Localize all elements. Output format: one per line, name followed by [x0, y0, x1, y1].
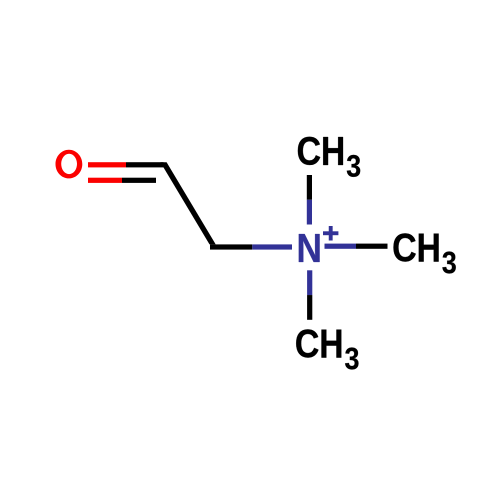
double bond O=C line 2 black half	[122, 178, 156, 183]
bond N-CH3 top black half	[307, 175, 312, 200]
bond N-CH3 bottom blue half	[307, 270, 312, 295]
methyl CH3 bottom subscript 3	[345, 348, 358, 370]
methyl CH3 right subscript 3	[442, 252, 455, 274]
double bond O=C line 1 black half	[126, 162, 164, 167]
bond N-CH3 bottom black half	[307, 295, 312, 320]
methyl CH3 top C	[298, 137, 320, 165]
bond C1-C2 diagonal wire	[160, 162, 215, 244]
double bond O=C line 1 red half	[88, 162, 126, 167]
atom N (blue nitrogen label)	[299, 234, 320, 262]
bond C2-N blue half	[252, 244, 292, 249]
methyl CH3 top subscript 3	[347, 155, 360, 177]
N+ charge plus sign vertical bar	[329, 226, 333, 241]
atom O (red oxygen label)	[56, 150, 83, 179]
methyl CH3 bottom C	[296, 329, 318, 357]
methyl CH3 right C	[393, 233, 415, 261]
bond N-CH3 right blue half	[325, 244, 357, 249]
methyl CH3 top H	[323, 137, 343, 165]
methyl CH3 right H	[419, 234, 439, 262]
bond N-CH3 top blue half	[307, 200, 312, 225]
N+ charge plus sign horizontal bar	[323, 231, 338, 235]
bond N-CH3 right black half	[356, 244, 388, 249]
methyl CH3 bottom H	[321, 330, 341, 358]
double bond O=C line 2 red half	[88, 178, 122, 183]
bond C2-N black half	[210, 244, 252, 249]
